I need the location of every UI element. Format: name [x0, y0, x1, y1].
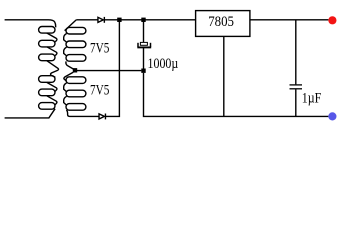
svg-text:7805: 7805 — [208, 14, 234, 30]
svg-text:7V5: 7V5 — [90, 41, 109, 57]
svg-text:1µF: 1µF — [302, 90, 322, 106]
svg-text:1000µ: 1000µ — [148, 56, 179, 72]
svg-text:7V5: 7V5 — [90, 83, 109, 99]
